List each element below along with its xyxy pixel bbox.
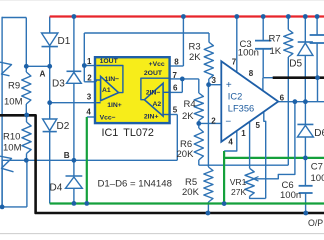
svg-text:2IN−: 2IN− (146, 89, 161, 96)
svg-text:2IN+: 2IN+ (144, 113, 159, 120)
svg-text:4: 4 (228, 137, 233, 146)
svg-text:B: B (64, 151, 70, 160)
svg-text:6: 6 (173, 84, 178, 93)
svg-text:−: − (225, 116, 231, 127)
svg-text:LF356: LF356 (228, 104, 254, 114)
svg-text:D1: D1 (58, 36, 71, 47)
svg-text:3: 3 (212, 76, 217, 85)
svg-text:4: 4 (86, 108, 91, 117)
svg-text:A2: A2 (153, 101, 162, 108)
svg-text:TL072: TL072 (123, 127, 154, 139)
svg-text:8: 8 (249, 69, 254, 78)
svg-text:20K: 20K (177, 149, 195, 160)
svg-text:R10: R10 (3, 132, 20, 143)
svg-text:1: 1 (241, 129, 246, 138)
svg-text:D3: D3 (52, 79, 65, 90)
svg-text:C7: C7 (311, 162, 323, 173)
svg-text:2: 2 (211, 116, 216, 125)
svg-text:1K: 1K (270, 46, 282, 57)
svg-text:D1–D6 = 1N4148: D1–D6 = 1N4148 (98, 178, 172, 189)
svg-text:R4: R4 (184, 99, 196, 110)
svg-text:+Vcc: +Vcc (149, 61, 165, 68)
svg-text:3: 3 (87, 93, 92, 102)
svg-text:D6: D6 (314, 128, 324, 139)
svg-text:2OUT: 2OUT (144, 70, 163, 77)
svg-text:8: 8 (174, 57, 179, 66)
svg-text:7: 7 (173, 71, 178, 80)
svg-text:VR1: VR1 (230, 177, 247, 187)
svg-text:7: 7 (232, 57, 237, 66)
svg-text:IC1: IC1 (102, 127, 119, 139)
svg-text:1IN−: 1IN− (105, 76, 120, 83)
svg-text:6: 6 (280, 93, 285, 102)
svg-text:5: 5 (173, 106, 178, 115)
svg-text:2: 2 (87, 74, 92, 83)
svg-text:R7: R7 (269, 33, 281, 44)
svg-text:D5: D5 (289, 58, 302, 69)
svg-text:O/P: O/P (308, 218, 323, 228)
svg-text:Vcc−: Vcc− (100, 115, 116, 122)
svg-text:100n: 100n (238, 48, 259, 59)
svg-text:2K: 2K (189, 52, 201, 63)
svg-text:R9: R9 (8, 81, 20, 92)
svg-text:27K: 27K (231, 187, 247, 197)
svg-text:A1: A1 (102, 87, 111, 94)
svg-text:100n: 100n (280, 190, 301, 201)
svg-text:D4: D4 (50, 183, 63, 194)
svg-text:100n: 100n (311, 173, 324, 184)
svg-text:+: + (226, 80, 232, 91)
svg-text:IC2: IC2 (228, 91, 242, 101)
svg-text:1IN+: 1IN+ (107, 102, 122, 109)
svg-text:5: 5 (256, 121, 261, 130)
svg-text:1OUT: 1OUT (100, 58, 119, 65)
svg-text:10M: 10M (4, 96, 23, 107)
svg-text:D2: D2 (57, 121, 70, 132)
svg-text:20K: 20K (182, 187, 200, 198)
svg-text:1: 1 (87, 57, 92, 66)
svg-text:10M: 10M (3, 142, 22, 153)
svg-text:2K: 2K (182, 111, 194, 122)
svg-text:A: A (40, 69, 46, 78)
